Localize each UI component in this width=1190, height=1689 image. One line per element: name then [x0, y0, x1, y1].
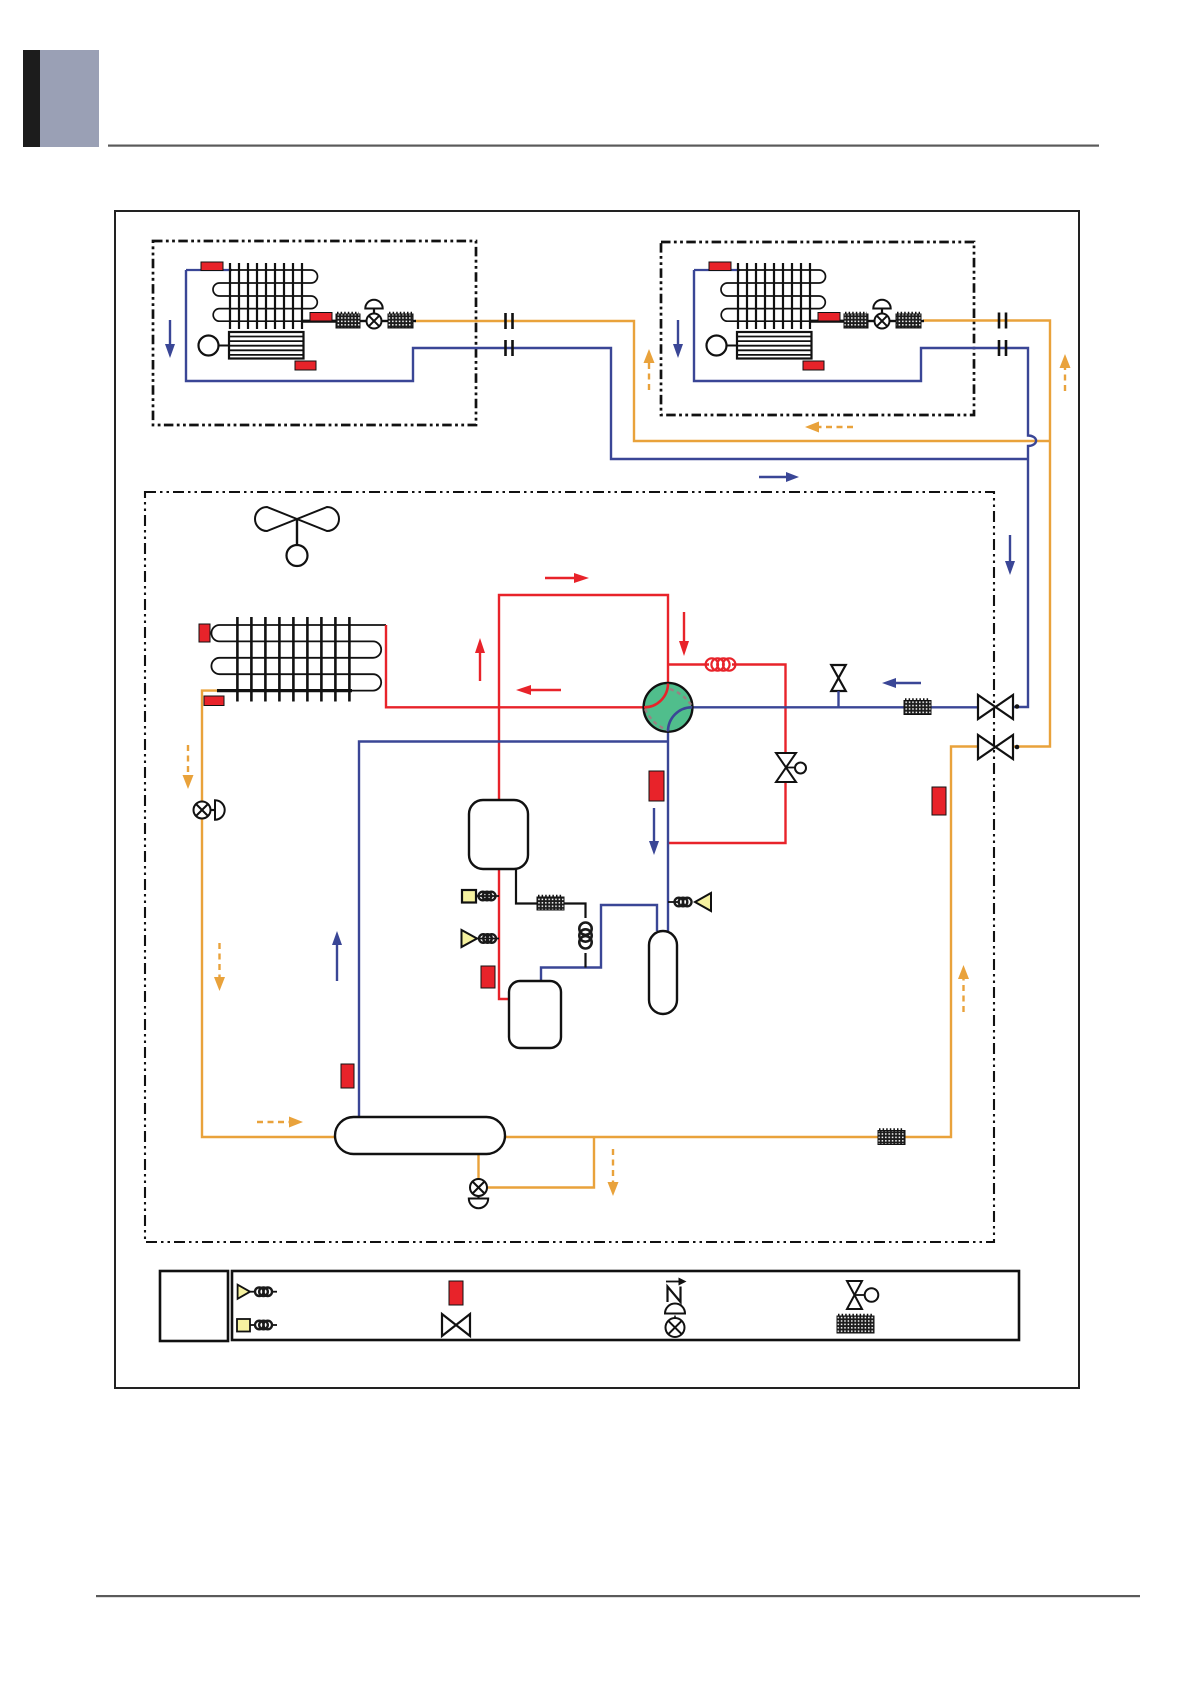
header black tab [23, 50, 40, 147]
high pressure switch stub [476, 895, 499, 897]
indoor unit 1 coil mid thermistor [310, 313, 332, 322]
high pressure sensor stub [477, 938, 499, 940]
header rule [108, 145, 1099, 147]
legend valve symbol [442, 1314, 470, 1336]
subcooling EEV [469, 1179, 488, 1208]
suction pipe thermistor [649, 771, 664, 801]
compressor discharge pipe (red) [499, 595, 668, 999]
indoor unit 1 strainer (inlet side) [336, 313, 360, 328]
footer rule [96, 1595, 1140, 1597]
legend symbol box [232, 1271, 1019, 1340]
legend EEV symbol [665, 1304, 685, 1338]
indoor unit 1 heat exchanger serpentine tube [213, 270, 318, 321]
suction pipe 4-way valve to gas service valve (blue) [692, 706, 979, 708]
indoor unit 2 coil inlet thermistor [709, 262, 731, 271]
diagram outer frame [115, 211, 1079, 1388]
hot gas pipe outdoor coil to 4-way valve (red) [386, 625, 643, 707]
liquid pipe outdoor coil to receiver (orange) [202, 691, 335, 1137]
discharge pipe thermistor [481, 966, 495, 988]
high pressure switch coil [479, 892, 496, 901]
legend solenoid valve symbol [847, 1281, 862, 1309]
indoor unit 1 electronic expansion valve [365, 300, 382, 329]
indoor unit 2 strainer (liquid side) [896, 313, 921, 328]
liquid side service valve [978, 735, 1019, 759]
oil separator [469, 800, 528, 869]
high pressure sensor coil [479, 934, 496, 943]
outdoor heat exchanger coil fins [237, 617, 349, 702]
bypass solenoid actuator [786, 763, 806, 774]
heating flow dashed arrow left of unit 2 (orange, up) [644, 349, 655, 390]
liquid pipe thermistor [932, 787, 946, 815]
legend title cell [160, 1271, 228, 1341]
indoor unit 2 gas pipe elbow to coil inlet [694, 269, 740, 271]
indoor unit 1 coil outlet pipe (bold) [302, 320, 338, 323]
indoor unit 2 boundary (dash-dot box) [661, 242, 974, 415]
legend pressure switch symbol [237, 1319, 277, 1332]
legend nitrogen arrow symbol [666, 1278, 687, 1303]
heating flow dashed arrow right of unit 2 (orange, up) [1060, 354, 1071, 391]
suction down pipe to accumulator (blue) [667, 731, 669, 931]
discharge flow arrow (red, up) [475, 638, 485, 681]
indoor unit 2 cross-flow fan [737, 332, 812, 359]
low pressure sensor (yellow triangle) [695, 893, 711, 911]
flare connection liquid line unit 2 [998, 313, 1008, 329]
liquid line strainer [878, 1129, 905, 1144]
indoor unit 2 coil mid thermistor [818, 313, 840, 322]
suction line strainer [904, 699, 931, 714]
low pressure sensor coil [675, 898, 692, 907]
indoor unit 1 strainer (liquid side) [388, 313, 413, 328]
indoor unit 1 air thermistor [295, 361, 316, 370]
oil return capillary coil [579, 923, 591, 949]
receiver vapour pipe thermistor [341, 1064, 354, 1088]
legend pressure sensor symbol [238, 1285, 277, 1299]
service port stem (blue) [837, 691, 839, 707]
receiver / subcooler [335, 1117, 505, 1154]
indoor unit 2 electronic expansion valve [873, 300, 890, 329]
subcool branch pipe (orange) [479, 1137, 595, 1188]
indoor unit 2 heat exchanger coil fins [738, 263, 810, 329]
4-way inlet flow arrow (red, down) [679, 612, 689, 656]
heating flow dashed arrow below unit 2 (orange, left) [805, 422, 853, 433]
indoor unit 2 strainer (inlet side) [844, 313, 868, 328]
outdoor coil thermistor (top) [199, 624, 210, 642]
hot gas bypass pipe (red) [668, 665, 786, 844]
accumulator outlet to compressor suction (blue) [541, 905, 657, 981]
outdoor coil thermistor (bottom) [204, 696, 224, 706]
gas line service port valve [831, 665, 846, 691]
indoor unit 1 fan motor [199, 336, 230, 356]
discharge flow arrow (red, right) [545, 573, 589, 583]
low pressure sensor stub [668, 901, 678, 903]
gas side service valve [978, 695, 1019, 719]
indoor unit 1 EEV connecting stubs [360, 320, 416, 322]
legend pressure sensor coil [255, 1287, 272, 1296]
indoor unit 2 airflow arrow (blue, down) [673, 320, 683, 358]
outdoor coil outlet pipe (bold) [217, 689, 352, 692]
subcool flow dashed arrow (orange, down) [608, 1149, 619, 1196]
oil return pipe from oil separator (black) [516, 869, 586, 968]
bypass solenoid valve [776, 753, 796, 782]
outdoor propeller fan [255, 507, 339, 566]
liquid pipe receiver to liquid service valve (orange) [505, 747, 979, 1138]
high pressure switch (yellow square) [462, 890, 476, 903]
outdoor main EEV (liquid line) [194, 800, 225, 819]
indoor unit 2 coil outlet pipe (bold) [810, 320, 846, 323]
flare connection gas line unit 2 [998, 340, 1008, 356]
heating flow dashed arrow right (orange, up) [958, 965, 969, 1012]
header gray tab [40, 50, 99, 147]
accumulator [649, 931, 677, 1014]
indoor unit 1 coil inlet thermistor [201, 262, 223, 271]
coil outlet flow arrow (red, left) [516, 685, 561, 695]
legend solenoid actuator [855, 1288, 879, 1302]
gas riser flow arrow (blue, down) [1005, 535, 1015, 575]
cooling flow arrow below gas line (blue, right) [759, 472, 799, 482]
indoor unit 1 gas pipe elbow to coil inlet [186, 269, 232, 271]
outdoor unit boundary (dash-dot box) [145, 492, 994, 1242]
outdoor heat exchanger serpentine tube [211, 625, 386, 691]
indoor unit 1 boundary (dash-dot box) [153, 241, 476, 425]
oil return strainer [537, 896, 564, 910]
gas pipe indoor unit 2 riser with crossover hop (blue) [694, 270, 1036, 707]
indoor unit 1 cross-flow fan [229, 332, 304, 359]
indoor unit 2 air thermistor [803, 361, 824, 370]
indoor unit 2 fan motor [707, 336, 738, 356]
bypass capillary coil (red) [706, 658, 736, 670]
liquid pipe indoor unit 1 to junction (orange) [415, 321, 1049, 441]
compressor [509, 981, 561, 1048]
defrost flow dashed arrow left (orange, down) [183, 745, 194, 789]
flare connection liquid line unit 1 [504, 313, 514, 329]
liquid flow dashed arrow into receiver (orange, right) [257, 1117, 303, 1128]
indoor unit 1 heat exchanger coil fins [230, 263, 302, 329]
indoor unit 2 EEV connecting stubs [868, 320, 924, 322]
legend pressure switch coil [255, 1321, 272, 1330]
4-way valve [644, 683, 693, 732]
high pressure sensor (yellow triangle) [462, 930, 478, 947]
indoor unit 2 heat exchanger serpentine tube [721, 270, 826, 321]
liquid pipe indoor unit 2 riser (orange) [923, 321, 1050, 747]
indoor unit 1 airflow arrow (blue, down) [165, 320, 175, 358]
legend thermistor symbol [449, 1281, 463, 1305]
suction flow arrow (blue, left) [882, 678, 921, 688]
gas pipe indoor unit 1 run (blue) [186, 270, 1027, 459]
legend strainer symbol [837, 1315, 874, 1333]
flare connection gas line unit 1 [504, 340, 514, 356]
vapour return flow arrow (blue, up) [332, 931, 342, 981]
receiver vapour return pipe (blue) [359, 742, 668, 1118]
suction flow arrow (blue, down) [649, 808, 659, 855]
defrost flow dashed arrow left lower (orange, down) [214, 943, 225, 991]
